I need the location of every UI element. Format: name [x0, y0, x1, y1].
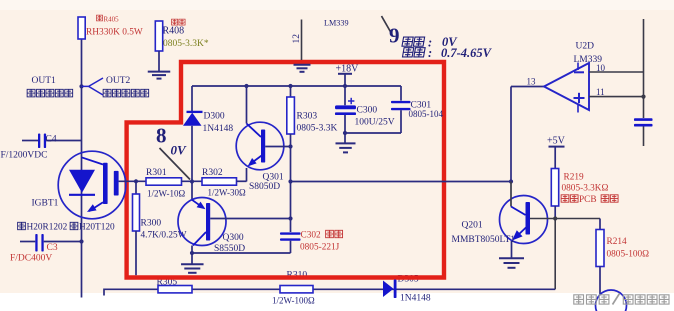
node +18V tap: [343, 84, 347, 88]
resistor R300: [133, 194, 140, 231]
callout 8 slash: [160, 148, 191, 180]
Q301 base bar: [261, 130, 265, 163]
svg-text:+5V: +5V: [547, 136, 566, 147]
transistor (bottom, partial) circle: [596, 290, 627, 311]
svg-text:0805-3.3K*: 0805-3.3K*: [163, 39, 209, 49]
connector OUT2 chevron: [82, 78, 104, 95]
wire C300 top: [344, 86, 346, 105]
label 四脚接线柱 OUT2: [103, 89, 111, 97]
wire bottom rail: [104, 288, 555, 290]
label 四脚接线柱 OUT1: [27, 89, 35, 97]
wire R214 top: [599, 219, 601, 230]
svg-text:R405: R405: [104, 16, 120, 24]
capacitor C3 plate 2: [41, 234, 43, 252]
node Q301 base junction: [288, 144, 292, 148]
C300 plus sign v: [350, 98, 352, 104]
svg-text:1/2W-100Ω: 1/2W-100Ω: [272, 296, 315, 306]
node 8 junction: [190, 179, 194, 183]
label 不插PCB预留 (red): [561, 195, 569, 202]
IGBT collector diagonal: [82, 157, 104, 164]
svg-text:RH330K 0.5W: RH330K 0.5W: [86, 28, 143, 38]
svg-text:D300: D300: [204, 112, 225, 122]
svg-text:0V: 0V: [171, 143, 188, 158]
wire Q300 emitter entry: [191, 182, 193, 200]
IGBT emitter diagonal: [89, 202, 103, 211]
wire to ground C300: [344, 133, 346, 143]
svg-text:0805-221J: 0805-221J: [300, 243, 340, 253]
svg-text:13: 13: [527, 77, 537, 87]
wire D300 anode to node: [191, 126, 193, 182]
wire C301 top: [400, 86, 402, 101]
node R219/base: [553, 216, 557, 220]
+5V terminal bar: [549, 146, 565, 148]
transistor Q301 circle: [236, 122, 284, 170]
svg-text:C302: C302: [301, 231, 321, 241]
svg-text:1/2W-30Ω: 1/2W-30Ω: [208, 188, 246, 198]
wire R300 top stem: [135, 181, 137, 194]
resistor R408: [155, 21, 162, 51]
wire +5V to R219: [554, 147, 556, 169]
svg-text:MMBT8050LT1: MMBT8050LT1: [452, 235, 516, 245]
ground R408: [148, 71, 171, 73]
svg-text:S8050D: S8050D: [249, 182, 280, 192]
diode D300 cathode bar: [187, 111, 203, 113]
svg-text:R301: R301: [146, 168, 167, 178]
node center/long wire: [288, 179, 292, 183]
IGBT Q IGBT1 circle: [58, 151, 126, 219]
svg-text:U2D: U2D: [576, 42, 595, 52]
node OUT1 junction: [79, 84, 83, 88]
IGBT gate bar: [103, 163, 108, 204]
svg-text:R214: R214: [607, 237, 627, 247]
svg-text:0805-100Ω: 0805-100Ω: [607, 250, 650, 260]
resistor R219: [551, 169, 558, 207]
svg-text:0805-3.3KΩ: 0805-3.3KΩ: [562, 184, 609, 194]
Q201 base bar: [526, 202, 531, 235]
resistor R305: [158, 286, 192, 293]
watermark 头条号 / 电子维修: [574, 295, 584, 304]
wire Q300 collector to ground: [191, 246, 193, 264]
op-amp plus input h: [574, 97, 585, 99]
annotation 静态: 0V: [402, 37, 413, 46]
svg-text:1/2W-10Ω: 1/2W-10Ω: [147, 189, 185, 199]
Q300 emitter diagonal: [192, 200, 199, 205]
svg-text:8: 8: [156, 124, 167, 148]
wire C302 bottom: [290, 241, 292, 253]
node R300 top: [134, 179, 138, 183]
Q301 collector diagonal: [247, 124, 262, 138]
node Q301 collector tap: [244, 84, 248, 88]
node R303 tap: [288, 84, 292, 88]
svg-text:IGBT1: IGBT1: [32, 199, 59, 209]
capacitor C4 plate 1: [38, 134, 40, 149]
svg-text:H20T120: H20T120: [79, 223, 115, 233]
wire node to bottom rail: [554, 219, 556, 290]
capacitor C302 plate 2: [280, 238, 301, 240]
diode D305 cathode bar: [394, 280, 397, 299]
label 或H20R1202或H20T120: [18, 222, 26, 229]
wire pin13 horizontal: [511, 86, 544, 88]
wire Q201 base to R214: [530, 218, 600, 220]
node C3 junction: [79, 239, 83, 243]
op-amp power stub top: [577, 63, 579, 71]
wire R303 top: [290, 86, 292, 97]
wire C4 right: [46, 140, 81, 142]
svg-text:12: 12: [292, 34, 302, 44]
wire Q201 emitter to ground: [511, 241, 513, 258]
svg-text:R300: R300: [141, 219, 162, 229]
wire R219 bottom: [554, 206, 556, 219]
capacitor C301 plate 2: [391, 108, 411, 110]
svg-text:LM339: LM339: [324, 19, 349, 28]
svg-text:0805-3.3K: 0805-3.3K: [297, 124, 338, 134]
resistor R405: [78, 17, 85, 39]
wire D300 top: [191, 86, 193, 112]
op-amp plus input v: [578, 93, 580, 103]
wire Q301 collector: [246, 86, 248, 124]
svg-text:R303: R303: [297, 112, 318, 122]
svg-text:H20R1202: H20R1202: [27, 223, 68, 233]
wire IGBT lead to R300 node: [119, 180, 146, 182]
wire center vertical: [290, 147, 292, 233]
svg-text:F/1200VDC: F/1200VDC: [1, 151, 48, 161]
svg-text:Q201: Q201: [462, 221, 483, 231]
svg-text:R219: R219: [564, 172, 584, 182]
svg-text:9: 9: [389, 24, 400, 48]
wire C3 left: [20, 241, 35, 243]
Q201 emitter diagonal: [517, 227, 527, 237]
svg-text:10: 10: [596, 63, 606, 73]
wire R214 bottom: [599, 267, 601, 296]
callout 9 slash: [382, 16, 392, 34]
Q300 base bar: [206, 203, 210, 241]
IGBT internal diode triangle: [69, 170, 95, 193]
ground pin12: [294, 64, 311, 66]
wire R300 bottom stem: [135, 231, 137, 275]
svg-text:F/DC400V: F/DC400V: [10, 254, 52, 264]
capacitor C301 plate 1: [391, 101, 411, 103]
ground C300: [336, 142, 356, 144]
svg-text:0805-104: 0805-104: [409, 109, 444, 119]
wire +18V horizontal: [192, 85, 401, 87]
svg-text:C3: C3: [47, 243, 58, 253]
wire C301 bottom: [400, 110, 402, 133]
capacitor right plate 1: [634, 118, 653, 121]
annotation 动态: 0.7-4.65V: [402, 48, 413, 57]
wire long horizontal node8-Q201: [291, 181, 512, 183]
wire R302 to Q301: [237, 180, 247, 182]
node C300/C301 bottom junction: [343, 131, 347, 135]
node Q300 collector/C302: [190, 251, 194, 255]
Q301 emitter diagonal: [250, 155, 263, 165]
Q201 emitter arrow: [512, 230, 523, 240]
svg-text:Q301: Q301: [263, 173, 284, 183]
resistor R303: [287, 97, 295, 134]
capacitor right plate 2: [634, 124, 653, 127]
diode D300 triangle (pointing up): [183, 113, 202, 126]
op-amp power stub: [577, 104, 579, 113]
ground Q201: [499, 257, 524, 259]
C300 plus sign h: [348, 100, 354, 102]
capacitor C302 plate 1: [280, 232, 301, 234]
svg-text:11: 11: [596, 87, 605, 97]
op-amp minus input: [574, 71, 584, 73]
svg-text:C300: C300: [357, 106, 378, 116]
wire R303 bottom: [290, 134, 292, 147]
diode D305 triangle: [383, 281, 394, 298]
IGBT internal diode bar: [69, 194, 95, 196]
wire Q201 collector: [510, 182, 512, 207]
svg-text:1N4148: 1N4148: [203, 124, 234, 134]
svg-text:1N4148: 1N4148: [400, 294, 431, 304]
transistor Q201 circle: [500, 196, 548, 244]
svg-text:R408: R408: [163, 26, 185, 37]
capacitor C3 plate 1: [35, 234, 37, 252]
svg-text:OUT1: OUT1: [32, 76, 57, 86]
op-amp U2D triangle: [544, 63, 589, 110]
red highlight box: [127, 62, 444, 278]
wire R301-R302: [182, 180, 203, 182]
Q300 collector diagonal: [193, 232, 206, 246]
svg-text:100U/25V: 100U/25V: [355, 118, 395, 128]
Q300 emitter arrow (PNP): [197, 202, 206, 210]
wire C300 bottom: [344, 115, 346, 133]
wire C302 to Q300 ground link: [192, 252, 291, 254]
wire pin 10: [589, 71, 644, 73]
wire R408 to ground: [158, 51, 160, 71]
node C302 top: [288, 216, 292, 220]
svg-text:OUT2: OUT2: [106, 76, 131, 86]
wire pin13 vertical: [510, 87, 512, 182]
+18V terminal bar: [338, 73, 352, 75]
wire right vertical: [643, 19, 645, 118]
wire Q300 base: [210, 218, 290, 220]
ground Q300: [181, 263, 204, 265]
wire right capacitor bottom: [643, 127, 645, 147]
wire +18V stem: [344, 74, 346, 86]
wire Q301 base: [265, 146, 290, 148]
Q301 emitter arrow: [248, 158, 257, 167]
svg-text::: :: [428, 46, 432, 60]
resistor R310: [280, 286, 313, 293]
wire pin 11: [589, 96, 644, 98]
resistor R301: [146, 178, 182, 185]
transistor Q300 circle: [178, 198, 226, 246]
svg-text:0.7-4.65V: 0.7-4.65V: [441, 46, 493, 60]
wire bottom rail left stub: [103, 289, 105, 296]
node Q201 collector/pin13: [509, 179, 513, 183]
resistor R302: [202, 178, 237, 185]
IGBT plate bar: [114, 171, 119, 196]
svg-text:R302: R302: [202, 168, 223, 178]
svg-text:PCB: PCB: [579, 195, 597, 205]
wire C301 bottom link: [345, 132, 401, 134]
IGBT emitter arrow: [87, 204, 97, 212]
wire OUT1 main vertical: [81, 39, 83, 298]
svg-text:Q300: Q300: [223, 233, 244, 243]
wire C4 left: [22, 140, 38, 142]
label 可调 (red): [172, 19, 178, 25]
svg-text:C4: C4: [46, 135, 57, 145]
capacitor C300 plate + (thick): [335, 105, 356, 109]
capacitor C300 plate -: [335, 112, 356, 115]
capacitor C4 plate 2: [44, 134, 46, 149]
resistor R214: [596, 230, 604, 267]
wire Q301 emitter down: [246, 168, 248, 182]
node pin11 junction: [641, 95, 645, 99]
wire LM339 pin 12 stub: [301, 20, 303, 61]
Q201 collector diagonal: [511, 207, 526, 216]
wire C3 right: [44, 241, 82, 243]
